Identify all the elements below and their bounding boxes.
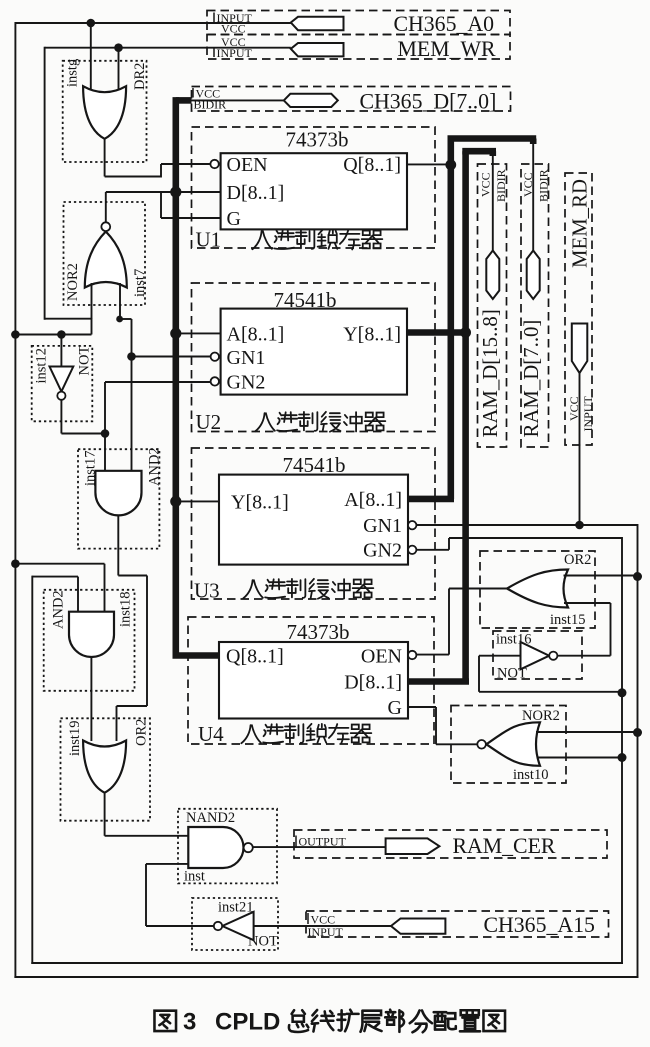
svg-text:G: G (227, 208, 241, 230)
nand-gate inst (188, 827, 243, 868)
svg-text:inst7: inst7 (132, 269, 148, 297)
not-gate inst21 bubble (214, 922, 222, 930)
IC U2 chinese label (octal buffer) (255, 413, 275, 431)
bidir port symbol RAM_D[15..8] (486, 251, 499, 300)
caption figure 3 (154, 1011, 176, 1031)
nor-gate inst7 body (85, 232, 127, 288)
input port symbol CH365_A0 (291, 17, 344, 30)
wire inst10 input A (536, 731, 638, 733)
wire U1 Q output to bus1 (407, 163, 448, 165)
junction MEM_RD at GN1 net (575, 521, 584, 530)
wire instg input B (118, 48, 120, 90)
svg-text:inst12: inst12 (34, 348, 50, 383)
or-gate inst19 (83, 741, 126, 793)
svg-text:A[8..1]: A[8..1] (344, 489, 402, 511)
wire net CH365_A0 left vertical + top run (15, 22, 290, 24)
svg-text:NOR2: NOR2 (65, 263, 81, 301)
wire inst15 input A (564, 575, 638, 577)
svg-text:74541b: 74541b (283, 453, 346, 477)
wire RAM_D[15..8] lead (492, 154, 494, 251)
wire inst7 input A (91, 283, 93, 319)
wire inst18 input A from inner loop (32, 576, 78, 578)
svg-text:inst: inst (184, 869, 205, 885)
svg-text:74373b: 74373b (286, 127, 349, 151)
IC U3 GN2 bubble (408, 546, 416, 554)
svg-text:NOT: NOT (77, 346, 93, 376)
dotted box inst21 (192, 898, 278, 950)
wire U3 GN1 to right vertical (416, 524, 637, 526)
IC U4 chinese label (octal latch) (241, 725, 261, 743)
wire node to U2 GN2 (104, 382, 106, 434)
IC U2 GN1 bubble (211, 353, 219, 361)
dashed box inst10 (451, 706, 566, 784)
svg-text:D[8..1]: D[8..1] (227, 182, 285, 204)
wire NAND input B from inst21 (146, 863, 188, 865)
svg-text:GN2: GN2 (363, 540, 402, 562)
svg-text:Q[8..1]: Q[8..1] (343, 154, 401, 176)
svg-text:inst21: inst21 (218, 900, 253, 916)
IC U1 body (221, 153, 407, 229)
svg-text:MEM_WR: MEM_WR (398, 37, 497, 61)
wire inst18 output (90, 657, 92, 741)
svg-text:INPUT: INPUT (308, 925, 344, 939)
junction U1 Q at bus1 (445, 159, 456, 170)
wire U2 GN1 run (132, 356, 211, 358)
not-gate inst16 triangle (521, 642, 550, 669)
junction inst12 output node (101, 429, 110, 438)
junction inst15 input A (633, 572, 642, 581)
wire NAND output to RAM_CER (253, 846, 386, 848)
port box RAM_D[7..0] (521, 164, 549, 447)
svg-text:BIDIR: BIDIR (537, 169, 551, 202)
bus wire U4 D output thick (408, 678, 469, 685)
IC U4 dashed box (188, 617, 434, 744)
output port symbol RAM_CER (386, 838, 440, 854)
svg-text:U4: U4 (198, 722, 224, 746)
port box MEM_WR (207, 35, 510, 60)
svg-text:NAND2: NAND2 (186, 810, 235, 826)
dashed box inst15 (480, 551, 595, 628)
svg-text:G: G (388, 697, 402, 719)
wire inst21 input from CH365_A15 (254, 925, 391, 927)
wire inst7 input B (119, 283, 121, 319)
wire inst15 output to U4 OEN (449, 588, 507, 590)
bus junction at U3 Y[8..1] (170, 496, 181, 507)
input port symbol MEM_RD (572, 324, 588, 374)
bidir port symbol RAM_D[7..0] (527, 251, 540, 300)
wire inst7 output to bus and U1 D (105, 192, 107, 222)
IC U4 OEN bubble (408, 651, 416, 659)
svg-text:GN1: GN1 (227, 347, 266, 369)
junction inst16 loop at inner vertical (618, 688, 627, 697)
svg-text:GN1: GN1 (363, 515, 402, 537)
dotted box inst12 (32, 346, 93, 421)
wire U4 G to inst10 output (408, 706, 436, 708)
svg-text:AND2: AND2 (147, 447, 163, 486)
junction on left vertical (11, 330, 20, 339)
wire inst15 input B from inst16 (564, 602, 611, 604)
IC U1 OEN bubble (210, 160, 218, 168)
svg-text:OUTPUT: OUTPUT (299, 835, 347, 849)
svg-text:U2: U2 (196, 410, 222, 434)
svg-text:Y[8..1]: Y[8..1] (343, 323, 401, 345)
bus junction at U2 A[8..1] (170, 328, 181, 339)
IC U2 dashed box (192, 283, 436, 432)
svg-text:RAM_D[15..8]: RAM_D[15..8] (479, 309, 502, 437)
svg-text:OEN: OEN (227, 154, 268, 176)
svg-text:RAM_D[7..0]: RAM_D[7..0] (520, 320, 543, 438)
nor-gate inst7 bubble (101, 222, 110, 231)
bus wire U3 A output thick (408, 496, 454, 503)
wire U3 Y input from bus (176, 500, 219, 502)
IC U3 dashed box (192, 448, 436, 599)
svg-text:AND2: AND2 (51, 590, 67, 629)
bus CH365_D vertical with stub to port and into U4 Q (176, 97, 192, 104)
IC U2 body (221, 309, 407, 395)
port box CH365_A15 (306, 911, 609, 937)
svg-text:inst15: inst15 (550, 612, 585, 628)
junction at inst12 input (57, 330, 66, 339)
wire U3 GN2 to inner loop (416, 549, 449, 551)
svg-text:CH365_A0: CH365_A0 (394, 12, 495, 36)
svg-text:GN2: GN2 (227, 372, 266, 394)
wire instg output to U1 OEN (104, 139, 106, 177)
junction inst10 input B (618, 753, 627, 762)
input port symbol CH365_A15 (391, 919, 445, 934)
svg-text:OR2: OR2 (134, 719, 150, 746)
svg-text:MEM_RD: MEM_RD (569, 179, 592, 268)
wire CH365_D port lead (192, 99, 284, 101)
wire net to inst12 and NOR input (15, 334, 91, 336)
IC U3 GN1 bubble (408, 521, 416, 529)
nor-gate inst10 body (486, 722, 540, 766)
svg-text:U1: U1 (196, 228, 222, 252)
svg-text:D[8..1]: D[8..1] (344, 671, 402, 693)
junction on MEM_WR wire at instg input (114, 43, 123, 52)
svg-text:inst10: inst10 (513, 767, 548, 783)
IC U3 body (219, 475, 408, 565)
input port symbol MEM_WR (291, 43, 344, 56)
dotted box inst19 (61, 718, 151, 820)
wire inst12 output (60, 400, 62, 434)
nand-gate inst bubble (244, 843, 253, 852)
svg-text:VCC: VCC (221, 22, 246, 36)
bus junction at U1 D[8..1] (170, 186, 181, 197)
wire MEM_RD lead down (579, 373, 581, 525)
bus2 RAM_D[15..8] vertical (462, 151, 469, 681)
wire inst12 input (60, 335, 62, 367)
svg-text:RAM_CER: RAM_CER (453, 834, 556, 858)
dotted box inst17 (78, 449, 159, 548)
svg-text:VCC: VCC (479, 172, 493, 197)
junction inst10 input A (633, 728, 642, 737)
dotted box inst18 (44, 590, 135, 691)
svg-text:3: 3 (183, 1009, 196, 1036)
wire inst17 input A (104, 434, 106, 472)
svg-text:BIDIR: BIDIR (494, 169, 508, 202)
junction U2 Y at bus2 (460, 327, 471, 338)
svg-text:INPUT: INPUT (217, 46, 253, 60)
svg-text:CH365_A15: CH365_A15 (484, 913, 596, 937)
svg-text:inst18: inst18 (118, 592, 134, 627)
svg-text:A[8..1]: A[8..1] (227, 323, 285, 345)
port box CH365_A0 (207, 11, 510, 35)
wire inner loop: inst18 input to bottom to right side (31, 576, 33, 964)
svg-text:CPLD: CPLD (215, 1009, 280, 1036)
svg-text:DR2: DR2 (132, 63, 148, 90)
wire instg input A (90, 23, 92, 90)
wire inst10 input B (537, 757, 622, 759)
port box RAM_CER (294, 830, 607, 858)
not-gate inst12 triangle (50, 367, 74, 392)
not-gate inst12 bubble (57, 392, 65, 400)
junction inst7 input B elbow (116, 316, 123, 323)
dotted box inst NAND2 (178, 809, 277, 884)
junction inst18 input B tap (11, 559, 20, 568)
IC U1 chinese label (octal latch) (252, 231, 272, 249)
IC U2 GN2 bubble (211, 377, 219, 385)
or-gate inst15 (507, 570, 568, 608)
svg-text:OR2: OR2 (564, 552, 591, 568)
not-gate inst16 bubble (549, 652, 557, 660)
and-gate inst18 (69, 612, 114, 657)
wire inst19 output to NAND (104, 793, 106, 836)
dotted box instg (63, 61, 147, 162)
not-gate inst21 triangle (222, 912, 253, 940)
svg-text:CH365_D[7..0]: CH365_D[7..0] (360, 89, 497, 113)
wire RAM_D[7..0] lead (532, 142, 534, 251)
wire inst17 output jog to inst19 (117, 515, 119, 575)
svg-text:Q[8..1]: Q[8..1] (226, 645, 284, 667)
dashed box inst16 (493, 631, 582, 679)
bidir port symbol CH365_D (284, 94, 338, 107)
IC U4 body (219, 642, 408, 719)
port box RAM_D[15..8] (478, 164, 507, 447)
svg-text:VCC: VCC (521, 172, 535, 197)
svg-text:inst19: inst19 (67, 721, 83, 756)
wire U2 A input from bus (176, 332, 221, 334)
port box CH365_D[7..0] (192, 87, 511, 112)
wire net MEM_WR top run + left vertical (45, 47, 291, 49)
wire branch to U1 G (160, 192, 162, 218)
IC U3 chinese label (octal buffer) (243, 580, 263, 598)
port box MEM_RD (565, 173, 592, 445)
svg-text:Y[8..1]: Y[8..1] (231, 491, 289, 513)
junction GN1 tap (127, 352, 136, 361)
dotted box inst7 (64, 202, 146, 305)
svg-text:OEN: OEN (361, 645, 402, 667)
or-gate instg (83, 86, 126, 139)
IC U1 dashed box (192, 127, 436, 248)
bus wire U2 Y output thick (407, 329, 468, 336)
junction on CH365_A0 wire at instg input (87, 19, 96, 28)
svg-text:74373b: 74373b (287, 620, 350, 644)
bus1 RAM_D[7..0] vertical (447, 139, 454, 500)
wire inst18 input B from left vertical (15, 563, 104, 565)
nor-gate inst10 bubble (477, 740, 486, 749)
svg-text:INPUT: INPUT (581, 395, 595, 431)
svg-text:instg: instg (65, 59, 81, 87)
svg-text:U3: U3 (194, 579, 220, 603)
and-gate inst17 (95, 471, 141, 516)
wire inst16 input loop (479, 655, 521, 657)
